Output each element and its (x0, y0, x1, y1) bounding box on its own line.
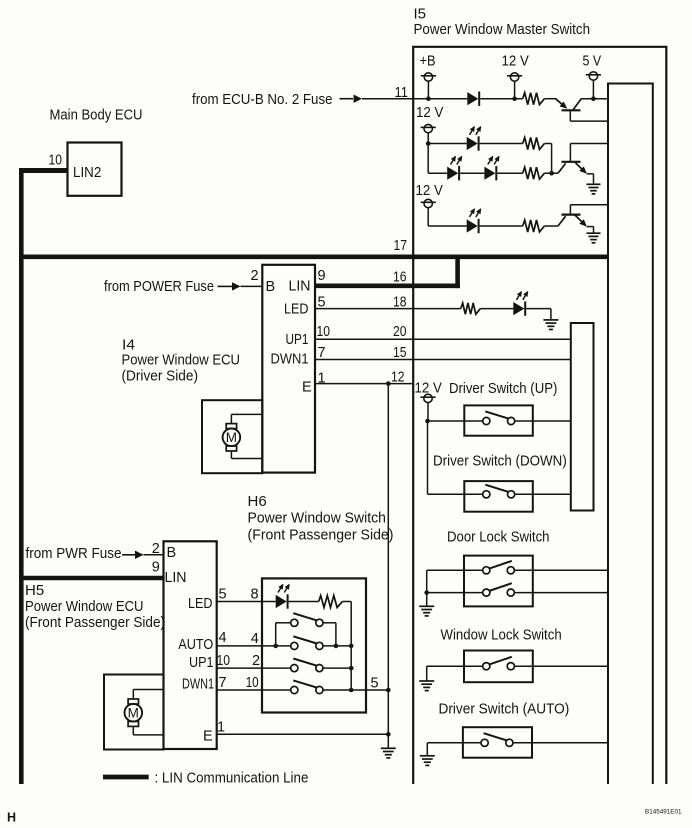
pin 7 label H5r (219, 675, 227, 691)
pin 15 label (393, 345, 407, 361)
svg-text:4: 4 (219, 630, 227, 646)
node row2 branch junction (426, 141, 431, 146)
wire AUTO parallel left up (275, 623, 277, 646)
node +B junction (426, 96, 431, 101)
svg-text:E: E (203, 729, 213, 745)
svg-text:M: M (128, 706, 139, 721)
resistor R3 row2 lower (523, 167, 545, 179)
node door lock left junction (424, 590, 429, 595)
svg-text:from ECU-B No. 2 Fuse: from ECU-B No. 2 Fuse (192, 91, 333, 108)
switch Driver UP contacts (483, 411, 515, 424)
svg-text:15: 15 (393, 345, 407, 361)
wire row2 upper corner down (551, 144, 553, 174)
pin UP1 label H5r (189, 655, 214, 671)
svg-text:(Driver Side): (Driver Side) (122, 368, 199, 385)
pin DWN1 label H5r (182, 677, 214, 693)
label (Driver Side) (122, 368, 199, 385)
svg-text:12 V: 12 V (416, 104, 443, 121)
pin 4 label H6 (251, 631, 259, 647)
pin 10 label H5r (217, 653, 231, 669)
label Driver Switch (DOWN) (433, 453, 567, 470)
footer H (7, 811, 16, 825)
svg-text:10: 10 (49, 153, 63, 169)
label Power Window ECU driver (122, 352, 241, 369)
label H6 (248, 493, 267, 510)
pin LED label I4 (284, 302, 309, 318)
svg-text:LIN: LIN (165, 570, 187, 586)
label Door Lock Switch (447, 529, 550, 546)
node E junction (386, 381, 391, 386)
LED D7 H6 (276, 594, 288, 608)
label (Front Passenger Side) H5 (25, 614, 165, 631)
resistor R2 row2 upper (523, 138, 545, 150)
switch Driver DOWN contacts (483, 485, 515, 498)
arrow feed POWER fuse (218, 282, 241, 290)
svg-text:UP1: UP1 (189, 655, 214, 671)
wire 12V driver stem (427, 402, 429, 421)
svg-text:B: B (266, 279, 276, 295)
svg-text:5: 5 (371, 676, 379, 692)
svg-text:2: 2 (252, 653, 260, 669)
label 5 V (583, 53, 602, 70)
svg-text:Power Window Switch: Power Window Switch (248, 510, 386, 527)
switch box H6 (262, 578, 366, 712)
transistor Q3 row3 (558, 205, 608, 234)
node 12V row1 junction (512, 96, 517, 101)
wire resistor to Q2 base node (544, 172, 551, 174)
wire LED2 to resistor (497, 172, 522, 174)
wire diode to 12V node (480, 98, 523, 100)
svg-text:Power Window ECU: Power Window ECU (25, 598, 144, 615)
pin 5 label H5r (219, 587, 227, 603)
node AUTO right junction (334, 644, 339, 649)
svg-text:1: 1 (217, 720, 225, 736)
switch box Window Lock (464, 651, 533, 683)
wire row3 to LED (428, 225, 467, 227)
transistor Q1 row1 (556, 99, 609, 121)
switch Door Lock lower contacts (483, 583, 515, 596)
wire E ground stem (387, 734, 389, 748)
wire LIN horizontal bus (thick) (19, 254, 608, 259)
LED light arrows row2 upper (470, 126, 482, 135)
power terminal 5V (586, 72, 601, 80)
wire AUTO parallel right down (335, 623, 337, 646)
svg-text:M: M (226, 430, 237, 445)
pin AUTO label (178, 637, 213, 653)
pin UP1 label I4 (286, 332, 309, 348)
svg-text:UP1: UP1 (286, 332, 309, 348)
wire door lock lower left (427, 592, 483, 594)
label 12 V row1 (502, 53, 529, 70)
svg-text:20: 20 (393, 324, 407, 340)
switch UP1 contacts H6 (291, 659, 323, 672)
wire AUTO upper left lead (276, 622, 291, 624)
node Q2 base junction (549, 171, 554, 176)
switch Driver AUTO contacts (481, 733, 513, 746)
pin 5 label H6 right (371, 676, 379, 692)
node AUTO branch junction (349, 644, 354, 649)
LED D4 row2 lower second (484, 166, 496, 180)
wire +B stem (427, 81, 429, 99)
svg-text:(Front Passenger Side): (Front Passenger Side) (248, 527, 394, 544)
svg-text:AUTO: AUTO (178, 637, 213, 653)
label Power Window ECU passenger (25, 598, 144, 615)
LED light arrows H6 (278, 584, 290, 593)
svg-text:10: 10 (217, 653, 231, 669)
inner terminal strip rect B (571, 323, 594, 511)
pin 7 label I4 (318, 345, 326, 361)
pin 10 label I4 (317, 324, 331, 340)
LED light arrows row2 LED1 (451, 156, 463, 165)
arrow feed ECU-B fuse (340, 95, 363, 103)
svg-text:2: 2 (251, 268, 259, 284)
wire door lock lower to rect A (533, 592, 608, 594)
LED light arrows row2 LED2 (488, 156, 500, 165)
wire resistor row2 upper to corner (544, 143, 551, 145)
pin 2 label H5 (152, 541, 160, 557)
svg-text:Driver Switch (UP): Driver Switch (UP) (449, 380, 557, 397)
inner terminal strip rect A (right, open bottom) (608, 84, 653, 785)
wire LED to resistor H6 (289, 601, 319, 603)
label (Front Passenger Side) H6 (248, 527, 394, 544)
pin 16 label (393, 270, 407, 286)
svg-text:LED: LED (284, 302, 309, 318)
wire window lock inner (514, 665, 532, 667)
LED light arrows row3 (470, 208, 482, 217)
wire door lock upper inner (514, 569, 532, 571)
wire window lock ground stem (426, 666, 428, 681)
pin E label I4 (302, 380, 312, 396)
resistor R6 H6 (319, 596, 343, 608)
ground Q2 emitter (587, 184, 601, 194)
wire door lock upper left (427, 569, 483, 571)
svg-text:17: 17 (394, 238, 408, 254)
svg-text:LED: LED (188, 596, 213, 612)
wire UP switch inner lead (515, 420, 533, 422)
node DWN1 junction (349, 688, 354, 693)
node AUTO left junction (273, 644, 278, 649)
pin LIN2 label (73, 165, 101, 181)
wire window lock to rect A (533, 665, 608, 667)
label Power Window Switch (248, 510, 386, 527)
pin E label H5 (203, 729, 213, 745)
pin 9 label I4 (318, 268, 326, 284)
wire feed to UP switch (428, 420, 465, 422)
svg-text:9: 9 (152, 560, 160, 576)
wire door lock upper to rect A (533, 569, 608, 571)
svg-text:: LIN Communication Line: : LIN Communication Line (155, 770, 309, 787)
label I5 (414, 6, 427, 23)
ECU box I4 (262, 265, 315, 473)
pin 12 label (391, 370, 405, 386)
pin 20 label (393, 324, 407, 340)
wire pin11 feed to diode (362, 98, 467, 100)
wire motor2 top lead (133, 690, 163, 699)
ground Q3 emitter (587, 233, 601, 243)
node 5V collector junction (591, 96, 596, 101)
power terminal 12V row1 (507, 73, 522, 81)
label from POWER Fuse (104, 278, 214, 295)
pin 10 label (49, 153, 63, 169)
ground E common (381, 748, 396, 758)
pin 2 label H6 (252, 653, 260, 669)
label 12 V row2 (416, 104, 443, 121)
motor M2 passenger side (125, 699, 143, 726)
svg-text:H6: H6 (248, 493, 267, 510)
wire resistor to Q3 (544, 225, 558, 227)
svg-text:5 V: 5 V (583, 53, 602, 70)
label from ECU-B No. 2 Fuse (192, 91, 333, 108)
wire UP switch to rect B (533, 420, 571, 422)
pin LIN label I4 (289, 279, 311, 295)
svg-text:16: 16 (393, 270, 407, 286)
ground door lock (419, 606, 434, 616)
svg-text:(Front Passenger Side): (Front Passenger Side) (25, 614, 165, 631)
motor M1 driver side (223, 424, 241, 451)
wire LED1 to LED2 (460, 172, 484, 174)
resistor R1 row1 (523, 93, 545, 105)
wire motor2 bottom lead (133, 727, 163, 735)
svg-text:DWN1: DWN1 (271, 352, 309, 368)
arrow feed PWR fuse (122, 551, 144, 559)
LED D5 row3 (467, 219, 479, 233)
LED D6 wire18 (513, 301, 525, 315)
pin 5 label I4 (318, 295, 326, 311)
svg-text:Power Window ECU: Power Window ECU (122, 352, 241, 369)
wire H6 LED branch drop (350, 602, 352, 646)
wire LED to ground corner wire18 (526, 308, 551, 310)
wire driver auto to rect A (532, 742, 608, 744)
ground wire18 (543, 320, 558, 330)
wire 15 DWN1 row (315, 359, 571, 361)
label Driver Switch (UP) (449, 380, 557, 397)
wire row2 lower to LED1 (428, 172, 447, 174)
wire 12 E row (315, 383, 413, 385)
svg-text:Driver Switch (DOWN): Driver Switch (DOWN) (433, 453, 567, 470)
wire 5V stem (592, 80, 594, 99)
ground driver auto (420, 756, 435, 766)
pin 1 label H5r (217, 720, 225, 736)
wire AUTO row H6 (217, 645, 291, 647)
svg-text:E: E (302, 380, 312, 396)
pin B label I4 (266, 279, 276, 295)
svg-text:10: 10 (317, 324, 331, 340)
svg-text:LIN2: LIN2 (73, 165, 101, 181)
wire UP1 row H6 (217, 667, 291, 669)
power terminal 12V driver (420, 394, 435, 402)
svg-text:4: 4 (251, 631, 259, 647)
switch box Driver AUTO (463, 727, 532, 758)
svg-text:8: 8 (251, 587, 259, 603)
wire 12V row2 stem (427, 133, 429, 144)
label Driver Switch (AUTO) (439, 701, 570, 718)
svg-text:from PWR Fuse: from PWR Fuse (26, 545, 122, 562)
pin 18 label (393, 295, 407, 311)
resistor R5 wire18 (461, 303, 481, 314)
wire LED row H6 (217, 601, 276, 603)
wire E trunk vertical (387, 384, 389, 735)
wire POWER fuse to pin B (241, 285, 263, 287)
wire motor1 top lead (231, 414, 262, 423)
LED light arrows wire18 (517, 291, 529, 300)
label H5 (25, 582, 44, 599)
wire18 ground drop (550, 309, 552, 320)
wire door lock lower inner (514, 592, 532, 594)
switch Window Lock contacts (483, 657, 515, 670)
wire PWR fuse to pin B H5 (144, 554, 164, 556)
wire DOWN switch to rect B (533, 493, 571, 495)
wire feed down to DOWN (427, 421, 429, 494)
LED D3 row2 lower first (447, 166, 459, 180)
pin 11 label (395, 85, 409, 101)
transistor Q2 row2 (552, 144, 608, 185)
wire motor1 bottom lead (231, 451, 262, 458)
switch AUTO main contacts (291, 636, 323, 649)
switch box Driver Switch DOWN (464, 481, 533, 512)
wire H6 collector drop (350, 646, 352, 690)
wire LED to resistor row3 (480, 225, 523, 227)
switch DWN1 contacts H6 (291, 680, 323, 693)
wire DOWN switch left lead (428, 493, 483, 495)
wire DOWN inner lead (515, 493, 533, 495)
switch Door Lock upper contacts (483, 561, 515, 574)
diode D1 row1 (467, 92, 479, 106)
pin 8 label H6 (251, 587, 259, 603)
label Main Body ECU (50, 107, 143, 124)
pin LED label H5r (188, 596, 213, 612)
label I4 (122, 337, 135, 354)
wire row2 lower branch vertical (427, 144, 429, 174)
pin 9 label H5 (152, 560, 160, 576)
svg-text:12 V: 12 V (416, 182, 443, 199)
svg-text:12 V: 12 V (502, 53, 529, 70)
node driver feed junction (425, 419, 430, 424)
svg-text:2: 2 (152, 541, 160, 557)
svg-text:H: H (7, 811, 16, 825)
pin 1 label I4 (318, 371, 326, 387)
wire 12V row1 stem (514, 81, 516, 99)
wire window lock left (427, 665, 483, 667)
wire UP switch left lead (464, 420, 482, 422)
pin 10 label H6 (246, 675, 259, 691)
svg-text:+B: +B (420, 53, 436, 70)
resistor R4 row3 (523, 220, 545, 232)
svg-text:9: 9 (318, 268, 326, 284)
ECU box H5 (164, 541, 217, 749)
ground window lock (419, 681, 434, 691)
wire DWN1 row H6 (217, 689, 291, 691)
wire UP1 right lead (323, 667, 351, 669)
wire 12V row3 stem (427, 208, 429, 227)
wire LIN drop to I4 pin 9 (thick) (455, 255, 460, 288)
pin 2 label I4 (251, 268, 259, 284)
ECU box LIN2 (Main Body ECU) (68, 143, 122, 196)
node pin5 junction (386, 688, 391, 693)
svg-text:Window Lock Switch: Window Lock Switch (441, 627, 562, 644)
power terminal 12V row2 (421, 124, 436, 132)
footer B145491E01 (645, 809, 682, 816)
wire resistor to transistor Q1 (544, 98, 556, 100)
svg-text:B145491E01: B145491E01 (645, 809, 682, 816)
pin 17 label (394, 238, 408, 254)
motor box H5 (104, 675, 164, 750)
label +B (420, 53, 436, 70)
wire driver auto ground stem (426, 743, 428, 756)
wire row2 upper to LED (428, 143, 467, 145)
svg-text:LIN: LIN (289, 279, 311, 295)
svg-text:from POWER Fuse: from POWER Fuse (104, 278, 214, 295)
svg-text:H5: H5 (25, 582, 44, 599)
wire LED to resistor row2 upper (480, 143, 523, 145)
legend LIN thick line sample (103, 775, 149, 780)
wire 20 UP1 row (315, 338, 571, 340)
label Power Window Master Switch (414, 21, 591, 38)
svg-text:I5: I5 (414, 6, 427, 23)
node UP1 junction (349, 666, 354, 671)
label Window Lock Switch (441, 627, 562, 644)
wire E row H5 (217, 733, 389, 735)
wire AUTO upper right lead (323, 622, 336, 624)
switch box Door Lock (464, 556, 533, 607)
connector box I5 Power Window Master Switch (open bottom) (413, 47, 666, 784)
wire 18 LED row (315, 308, 461, 310)
power terminal +B (421, 73, 436, 81)
wire AUTO right lead (323, 645, 351, 647)
wire resistor to LED wire18 (480, 308, 513, 310)
LED D2 row2 upper (467, 136, 479, 150)
wire resistor H6 to corner (342, 601, 351, 603)
pin 4 label H5r (219, 630, 227, 646)
wire door lock left vertical (426, 570, 428, 606)
svg-text:7: 7 (219, 675, 227, 691)
wire LIN2 to Main Body ECU (thick) (19, 168, 68, 173)
switch box Driver Switch UP (464, 405, 533, 435)
legend label LIN Communication Line (155, 770, 309, 787)
power terminal 12V row3 (421, 199, 436, 207)
motor box I4 (202, 400, 262, 473)
wire LIN I4 pin9 to pin16 (thick) (315, 283, 460, 288)
switch AUTO upper contacts (291, 613, 323, 626)
pin DWN1 label I4 (271, 352, 309, 368)
svg-text:5: 5 (219, 587, 227, 603)
svg-text:Main Body ECU: Main Body ECU (50, 107, 143, 124)
svg-text:Door Lock Switch: Door Lock Switch (447, 529, 550, 546)
svg-text:DWN1: DWN1 (182, 677, 214, 693)
label from PWR Fuse (26, 545, 122, 562)
pin B label H5 (167, 545, 177, 561)
node E row junction (386, 732, 391, 737)
svg-text:7: 7 (318, 345, 326, 361)
label 12 V driver switches (415, 380, 442, 397)
wire driver auto inner (513, 742, 532, 744)
svg-text:Driver Switch (AUTO): Driver Switch (AUTO) (439, 701, 570, 718)
label 12 V row3 (416, 182, 443, 199)
wire LIN vertical trunk left (thick) (19, 168, 24, 784)
wire DWN1 to pin5 H6 (323, 689, 388, 691)
svg-text:10: 10 (246, 675, 259, 691)
pin LIN label H5 (165, 570, 187, 586)
wire LIN H5 pin 9 (thick) (21, 576, 164, 581)
svg-text:B: B (167, 545, 177, 561)
wire driver auto left (427, 742, 481, 744)
svg-text:Power Window Master Switch: Power Window Master Switch (414, 21, 591, 38)
